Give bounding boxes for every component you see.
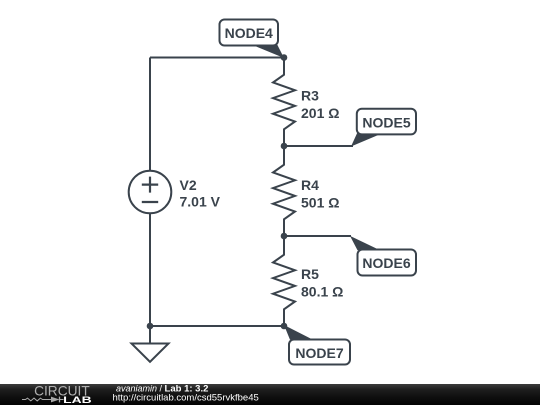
label R5 value [301,266,343,300]
svg-text:80.1 Ω: 80.1 Ω [301,283,343,299]
svg-text:R3: R3 [301,87,319,103]
wire left lower [149,213,151,326]
wire bottom (NODE7 net) [150,325,284,327]
resistor R5 [273,236,295,326]
wire left upper [149,58,151,171]
svg-text:201 Ω: 201 Ω [301,105,339,121]
junction dot node5 [281,143,288,150]
label R3 value [301,87,339,121]
svg-text:R4: R4 [301,177,319,193]
svg-text:NODE7: NODE7 [295,345,343,361]
svg-text:V2: V2 [180,177,197,193]
resistor R3 [273,58,295,147]
voltage source V2 [129,171,172,214]
svg-text:NODE4: NODE4 [225,25,273,41]
node NODE5 label [351,109,416,147]
svg-text:NODE5: NODE5 [362,115,410,131]
logo resistor-diode glyph [22,397,64,403]
footer bar [0,384,540,405]
svg-text:http://circuitlab.com/csd55rvk: http://circuitlab.com/csd55rvkfbe45 [113,393,259,404]
junction dot ground [147,323,154,330]
node NODE6 label [350,236,416,276]
junction dot node7 [281,323,288,330]
label V2 value [180,177,221,210]
resistor R4 [273,146,295,236]
svg-text:7.01 V: 7.01 V [180,194,221,210]
wire NODE5 stub [284,145,353,147]
ground [132,326,169,362]
label R4 value [301,177,339,210]
wire top (NODE4 net) [150,57,284,59]
node NODE4 label [220,20,285,59]
node NODE7 label [284,325,350,365]
svg-text:501 Ω: 501 Ω [301,194,339,210]
junction dot node6 [281,233,288,240]
svg-text:LAB: LAB [63,395,92,405]
svg-text:R5: R5 [301,266,319,282]
wire NODE6 stub [284,235,351,237]
junction dot node4 [281,54,288,61]
svg-text:NODE6: NODE6 [362,255,410,271]
